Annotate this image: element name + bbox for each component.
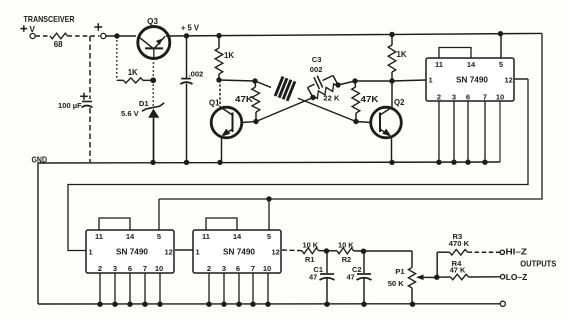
svg-text:5: 5 — [157, 232, 161, 241]
svg-text:47K: 47K — [361, 95, 379, 104]
svg-text:SN 7490: SN 7490 — [456, 76, 489, 85]
svg-text:.002: .002 — [189, 70, 204, 79]
svg-text:2: 2 — [207, 264, 211, 273]
svg-text:68: 68 — [54, 40, 63, 49]
svg-text:6: 6 — [128, 264, 132, 273]
svg-text:47: 47 — [309, 272, 317, 281]
svg-text:50 K: 50 K — [388, 279, 405, 288]
svg-text:14: 14 — [467, 60, 476, 69]
svg-text:LO–Z: LO–Z — [506, 273, 528, 282]
svg-text:1K: 1K — [128, 68, 138, 77]
svg-text:12: 12 — [505, 76, 513, 85]
svg-text:10 K: 10 K — [303, 241, 319, 250]
svg-text:P1: P1 — [395, 267, 405, 276]
svg-text:Q3: Q3 — [147, 17, 158, 26]
svg-text:11: 11 — [95, 232, 103, 241]
svg-text:3: 3 — [452, 93, 456, 102]
svg-text:10: 10 — [263, 264, 271, 273]
svg-text:7: 7 — [483, 93, 487, 102]
svg-text:2: 2 — [98, 264, 102, 273]
svg-text:1: 1 — [89, 248, 93, 257]
svg-text:470 K: 470 K — [449, 239, 470, 248]
svg-text:R2: R2 — [342, 255, 351, 264]
svg-text:47: 47 — [347, 272, 355, 281]
svg-text:1K: 1K — [224, 51, 234, 60]
svg-text:D1: D1 — [139, 99, 149, 108]
svg-text:Q2: Q2 — [394, 98, 405, 107]
svg-text:14: 14 — [233, 232, 242, 241]
svg-text:R1: R1 — [305, 255, 314, 264]
svg-text:1: 1 — [429, 76, 433, 85]
svg-text:5: 5 — [267, 232, 271, 241]
svg-text:10: 10 — [155, 264, 163, 273]
svg-text:47K: 47K — [235, 95, 253, 104]
svg-text:SN 7490: SN 7490 — [116, 248, 149, 257]
svg-text:1K: 1K — [397, 50, 407, 59]
svg-text:10: 10 — [496, 93, 504, 102]
svg-text:V: V — [30, 25, 36, 34]
svg-text:12: 12 — [272, 248, 280, 257]
svg-text:7: 7 — [251, 264, 255, 273]
svg-text:22 K: 22 K — [323, 94, 340, 103]
svg-text:12: 12 — [165, 248, 173, 257]
svg-text:14: 14 — [126, 232, 135, 241]
svg-text:SN 7490: SN 7490 — [223, 248, 256, 257]
svg-text:3: 3 — [113, 264, 117, 273]
svg-text:3: 3 — [222, 264, 226, 273]
svg-text:11: 11 — [435, 60, 443, 69]
svg-text:TRANSCEIVER: TRANSCEIVER — [24, 14, 75, 24]
svg-text:5: 5 — [499, 60, 503, 69]
svg-text:OUTPUTS: OUTPUTS — [520, 260, 557, 269]
svg-text:6: 6 — [236, 264, 240, 273]
svg-text:2: 2 — [437, 93, 441, 102]
svg-text:47 K: 47 K — [450, 265, 466, 274]
svg-text:002: 002 — [310, 65, 323, 74]
svg-text:10 K: 10 K — [338, 241, 354, 250]
svg-text:1: 1 — [196, 248, 200, 257]
svg-text:100 µF: 100 µF — [58, 101, 82, 110]
svg-text:5.6 V: 5.6 V — [121, 109, 140, 118]
svg-text:7: 7 — [143, 264, 147, 273]
svg-text:6: 6 — [466, 93, 470, 102]
svg-text:HI–Z: HI–Z — [506, 248, 528, 257]
svg-text:Q1: Q1 — [209, 99, 220, 108]
svg-text:11: 11 — [202, 232, 210, 241]
svg-text:C3: C3 — [312, 55, 322, 64]
svg-text:+ 5 V: + 5 V — [181, 24, 200, 33]
